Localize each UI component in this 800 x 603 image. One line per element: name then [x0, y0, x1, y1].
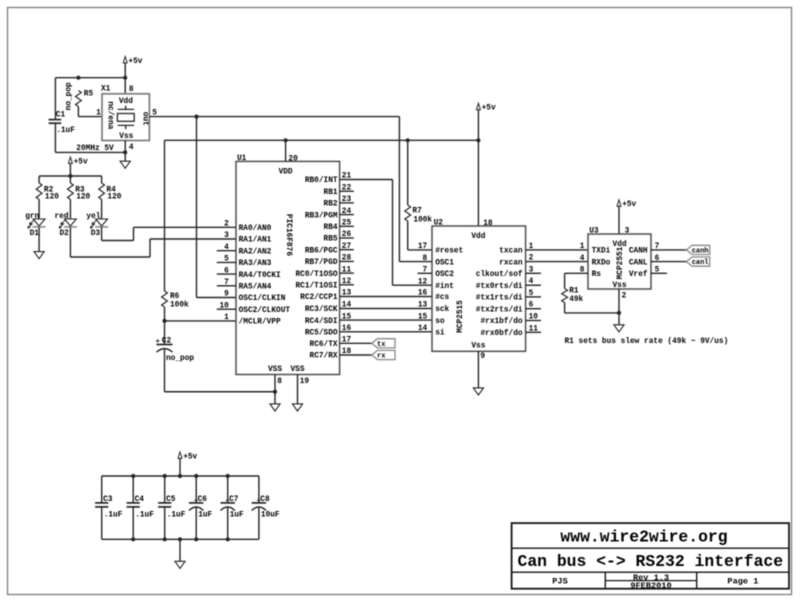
svg-text:so: so [435, 318, 445, 326]
svg-text:RA5/AN4: RA5/AN4 [239, 284, 272, 292]
svg-text:Vss: Vss [612, 282, 626, 290]
svg-text:19: 19 [300, 378, 310, 386]
svg-text:RB7/PGD: RB7/PGD [305, 259, 338, 267]
svg-text:10: 10 [529, 314, 539, 322]
svg-text:27: 27 [342, 243, 352, 251]
svg-text:U2: U2 [434, 220, 444, 228]
svg-text:8: 8 [277, 378, 282, 386]
svg-text:18: 18 [483, 220, 493, 228]
svg-text:1: 1 [96, 110, 101, 118]
svg-text:.1uF: .1uF [56, 127, 75, 135]
svg-text:out: out [140, 112, 148, 126]
svg-text:U1: U1 [237, 155, 247, 163]
svg-text:Vdd: Vdd [471, 233, 485, 241]
svg-text:RC7/RX: RC7/RX [310, 353, 338, 361]
svg-text:OSC1/CLKIN: OSC1/CLKIN [239, 295, 286, 303]
svg-text:.1uF: .1uF [167, 511, 186, 519]
svg-text:www.wire2wire.org: www.wire2wire.org [560, 528, 727, 547]
svg-text:RB6/PGC: RB6/PGC [305, 247, 338, 255]
svg-text:13: 13 [418, 302, 428, 310]
svg-text:.1uF: .1uF [104, 511, 123, 519]
svg-text:25: 25 [342, 220, 352, 228]
svg-text:4: 4 [580, 255, 585, 263]
svg-text:7: 7 [224, 279, 229, 287]
svg-text:120: 120 [45, 193, 59, 201]
svg-text:100k: 100k [413, 217, 432, 225]
svg-text:10: 10 [219, 302, 229, 310]
svg-text:4: 4 [129, 144, 134, 152]
svg-text:7: 7 [423, 267, 428, 275]
svg-text:3: 3 [625, 228, 630, 236]
svg-text:TXDi: TXDi [592, 248, 611, 256]
svg-text:RC4/SDI: RC4/SDI [305, 318, 338, 326]
svg-text:VDD: VDD [279, 168, 293, 176]
svg-text:tx: tx [377, 341, 386, 349]
svg-text:C8: C8 [260, 496, 270, 504]
svg-text:+5v: +5v [128, 58, 142, 66]
svg-text:3: 3 [529, 266, 534, 274]
svg-text:RC2/CCP1: RC2/CCP1 [300, 294, 338, 302]
svg-text:RC6/TX: RC6/TX [310, 341, 338, 349]
svg-text:PIC16F876: PIC16F876 [284, 214, 292, 256]
svg-text:D1: D1 [30, 230, 40, 238]
svg-text:120: 120 [76, 193, 90, 201]
svg-text:no_pop: no_pop [65, 82, 73, 110]
svg-text:RA2/AN2: RA2/AN2 [239, 248, 272, 256]
svg-text:RB5: RB5 [324, 236, 338, 244]
svg-text:Rs: Rs [592, 271, 602, 279]
svg-text:#rx1bf/do: #rx1bf/do [480, 318, 522, 326]
svg-text:no_pop: no_pop [166, 355, 194, 363]
svg-text:6: 6 [529, 302, 534, 310]
svg-text:#tx1rts/di: #tx1rts/di [476, 295, 523, 303]
svg-text:U3: U3 [589, 227, 599, 235]
svg-text:RXDo: RXDo [592, 259, 611, 267]
svg-text:Can bus <-> RS232 interface: Can bus <-> RS232 interface [518, 552, 784, 571]
svg-text:#tx2rts/di: #tx2rts/di [476, 306, 523, 314]
svg-text:MCP2515: MCP2515 [457, 300, 465, 333]
svg-text:4: 4 [224, 244, 229, 252]
svg-text:X1: X1 [101, 86, 111, 94]
svg-text:Vref: Vref [629, 271, 648, 279]
svg-text:C3: C3 [103, 496, 113, 504]
svg-text:9: 9 [224, 291, 229, 299]
svg-text:100k: 100k [170, 302, 189, 310]
svg-text:D3: D3 [91, 230, 101, 238]
svg-text:si: si [435, 330, 445, 338]
svg-text:#rx0bf/do: #rx0bf/do [480, 330, 522, 338]
svg-text:CANH: CANH [629, 248, 648, 256]
svg-text:OSC2: OSC2 [435, 271, 454, 279]
svg-text:R1: R1 [569, 288, 579, 296]
svg-text:1uF: 1uF [230, 511, 244, 519]
svg-text:CANL: CANL [629, 259, 648, 267]
svg-text:RB1: RB1 [324, 189, 338, 197]
svg-text:nc/ena: nc/ena [105, 101, 113, 129]
svg-text:OSC1: OSC1 [435, 259, 454, 267]
svg-text:clkout/sof: clkout/sof [476, 271, 523, 279]
svg-text:rxcan: rxcan [499, 259, 523, 267]
svg-text:120: 120 [107, 193, 121, 201]
svg-text:10uF: 10uF [261, 511, 280, 519]
svg-text:RC5/SDO: RC5/SDO [305, 330, 338, 338]
svg-text:R7: R7 [412, 208, 422, 216]
svg-text:R1 sets bus slew rate (49k ~ 9: R1 sets bus slew rate (49k ~ 9V/us) [565, 338, 729, 346]
svg-text:RA3/AN3: RA3/AN3 [239, 260, 272, 268]
svg-text:9: 9 [480, 353, 485, 361]
svg-text:9FEB2010: 9FEB2010 [630, 581, 671, 591]
svg-text:RB4: RB4 [324, 224, 338, 232]
svg-text:2: 2 [224, 221, 229, 229]
svg-text:#cs: #cs [435, 294, 449, 302]
svg-text:canl: canl [692, 259, 709, 267]
svg-text:14: 14 [418, 325, 428, 333]
svg-text:11: 11 [342, 266, 352, 274]
svg-text:17: 17 [418, 243, 428, 251]
svg-text:1uF: 1uF [198, 511, 212, 519]
svg-text:OSC2/CLKOUT: OSC2/CLKOUT [239, 307, 291, 315]
svg-text:Vss: Vss [471, 343, 485, 351]
svg-text:15: 15 [342, 313, 352, 321]
svg-text:Page 1: Page 1 [727, 577, 758, 587]
svg-text:C1: C1 [56, 112, 66, 120]
svg-text:.1uF: .1uF [135, 511, 154, 519]
svg-text:Vdd: Vdd [119, 98, 133, 106]
svg-text:49k: 49k [569, 296, 583, 304]
svg-text:16: 16 [418, 290, 428, 298]
svg-text:+5v: +5v [622, 201, 636, 209]
svg-text:/MCLR/VPP: /MCLR/VPP [239, 319, 281, 327]
svg-text:4: 4 [529, 278, 534, 286]
svg-text:#tx0rts/di: #tx0rts/di [476, 283, 523, 291]
svg-text:2: 2 [529, 255, 534, 263]
svg-text:1: 1 [580, 243, 585, 251]
svg-text:RC3/SCK: RC3/SCK [305, 306, 338, 314]
svg-text:rx: rx [377, 353, 386, 361]
svg-text:PJS: PJS [552, 577, 567, 587]
svg-text:13: 13 [342, 290, 352, 298]
svg-text:12: 12 [342, 278, 352, 286]
svg-text:22: 22 [342, 184, 352, 192]
svg-text:28: 28 [342, 255, 352, 263]
svg-text:canh: canh [692, 248, 709, 256]
svg-text:1: 1 [529, 243, 534, 251]
svg-text:VSS: VSS [290, 366, 304, 374]
svg-text:C7: C7 [229, 496, 239, 504]
svg-text:C2: C2 [162, 338, 172, 346]
svg-text:MCP2551: MCP2551 [617, 246, 625, 279]
svg-text:#int: #int [435, 283, 454, 291]
svg-text:sck: sck [435, 306, 449, 314]
svg-text:12: 12 [418, 278, 428, 286]
svg-text:RA1/AN1: RA1/AN1 [239, 237, 272, 245]
svg-text:26: 26 [342, 231, 352, 239]
svg-text:RC0/T1OSO: RC0/T1OSO [295, 271, 337, 279]
svg-text:RA0/AN0: RA0/AN0 [239, 225, 272, 233]
svg-text:14: 14 [342, 302, 352, 310]
svg-text:RB2: RB2 [324, 201, 338, 209]
svg-text:8: 8 [423, 255, 428, 263]
svg-text:RB3/PGM: RB3/PGM [305, 212, 338, 220]
svg-text:11: 11 [529, 325, 539, 333]
svg-text:+5v: +5v [482, 105, 496, 113]
svg-text:15: 15 [418, 313, 428, 321]
svg-text:+5v: +5v [74, 158, 88, 166]
svg-text:20: 20 [288, 155, 298, 163]
svg-text:D2: D2 [60, 230, 70, 238]
svg-text:#reset: #reset [435, 248, 463, 256]
svg-text:16: 16 [342, 325, 352, 333]
svg-text:RB0/INT: RB0/INT [305, 177, 338, 185]
svg-text:6: 6 [224, 267, 229, 275]
svg-text:2: 2 [622, 293, 627, 301]
svg-text:C6: C6 [198, 496, 208, 504]
svg-text:C4: C4 [135, 496, 145, 504]
svg-text:RC1/T1OSI: RC1/T1OSI [295, 283, 337, 291]
svg-text:23: 23 [342, 196, 352, 204]
svg-text:VSS: VSS [268, 366, 282, 374]
svg-text:8: 8 [129, 86, 134, 94]
svg-text:5: 5 [529, 290, 534, 298]
svg-text:RA4/T0CKI: RA4/T0CKI [239, 272, 281, 280]
svg-text:R6: R6 [170, 293, 180, 301]
svg-text:5: 5 [224, 256, 229, 264]
svg-text:3: 3 [224, 232, 229, 240]
svg-text:Vss: Vss [119, 133, 133, 141]
svg-text:1: 1 [224, 314, 229, 322]
svg-text:24: 24 [342, 208, 352, 216]
svg-text:R5: R5 [84, 91, 94, 99]
svg-text:txcan: txcan [499, 248, 523, 256]
svg-text:+5v: +5v [183, 453, 197, 461]
svg-text:C5: C5 [166, 496, 176, 504]
